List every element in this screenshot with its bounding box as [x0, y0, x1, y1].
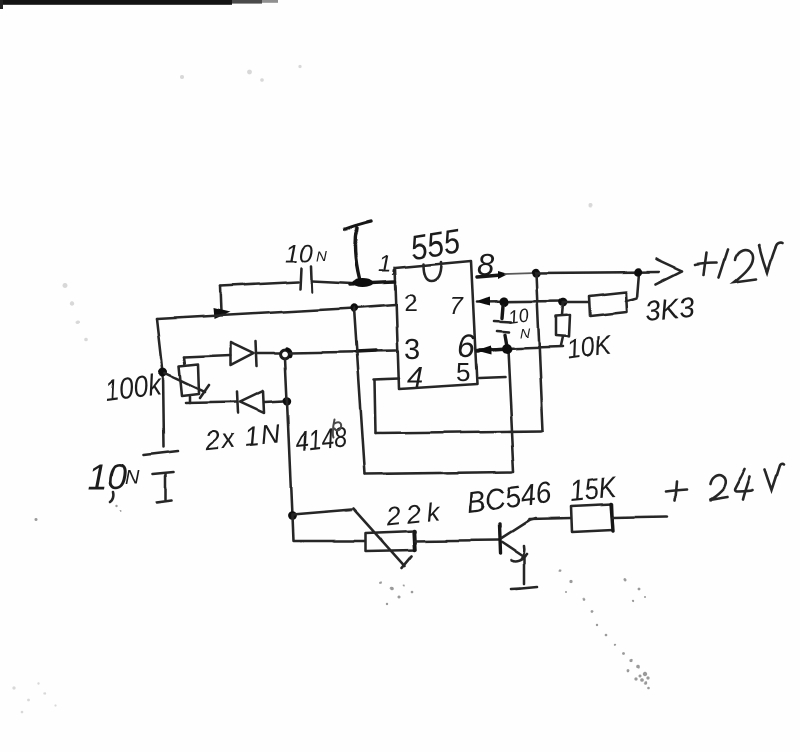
svg-text:10K: 10K	[565, 329, 614, 365]
wire pin1 thick segment	[350, 282, 395, 284]
wire pot top to diode D1 anode	[184, 355, 231, 357]
svg-text:4: 4	[407, 362, 423, 394]
capacitor C1 10n plates	[300, 268, 301, 289]
junction ring node A	[281, 350, 290, 359]
junction dot 3k3/+12V	[634, 268, 642, 276]
wire pin 5 stub	[479, 377, 505, 378]
resistor R5 15k body	[571, 504, 613, 532]
svg-text:3K3: 3K3	[644, 292, 696, 329]
wire bend down to pin2 net	[220, 286, 221, 312]
junction blob at ground/pin1	[352, 279, 374, 288]
ground Q1 emitter	[516, 587, 537, 589]
diode D2 1N4148	[237, 391, 264, 413]
R1 top lead	[184, 357, 185, 365]
svg-text:BC546: BC546	[465, 476, 554, 519]
capacitor C3 10n	[494, 306, 511, 347]
junction dot D2/vertical	[283, 397, 291, 405]
junction dot pin8 / reset loop	[532, 269, 541, 278]
svg-text:N: N	[125, 467, 140, 489]
resistor R2 3k3	[563, 273, 639, 316]
svg-text:2: 2	[404, 290, 417, 317]
wire pin 7	[477, 301, 563, 302]
capacitor C2 10n to ground	[144, 451, 178, 503]
junction dot 10k/3k3	[559, 298, 568, 307]
wire pin 6	[477, 347, 563, 350]
trimmer R4 22k diagonal	[354, 509, 405, 566]
arrowhead into pin 7	[476, 297, 490, 306]
wire D1 cathode to ring	[257, 352, 280, 355]
stray mark p	[332, 419, 340, 437]
transistor Q1 BC546	[499, 518, 536, 584]
junction dot pin2/outer loop	[350, 304, 358, 312]
+12V arrow	[656, 259, 682, 284]
thick dash on pin3 wire	[356, 351, 376, 352]
wire D2 anode to junction	[264, 401, 284, 402]
label +12V	[695, 243, 782, 282]
svg-text:7: 7	[449, 293, 464, 320]
speckles	[35, 505, 651, 690]
stray comma mark	[110, 492, 113, 502]
arrowhead on pin2 wire	[213, 308, 230, 319]
wire pin 8 to +12V	[477, 275, 501, 277]
wire R5 to +24V	[613, 517, 667, 518]
R1 bottom lead	[189, 397, 192, 403]
wire down and to R4	[292, 516, 365, 541]
svg-text:555: 555	[408, 222, 463, 267]
junction dot C3 top	[499, 297, 508, 306]
wire pot bottom to diode D2	[186, 402, 236, 403]
R1 wiper arrow	[165, 373, 205, 392]
svg-text:5: 5	[456, 357, 470, 387]
wire reset loop: +12V down, across, up to pin4	[536, 273, 543, 431]
wire vertical ring to 22k	[285, 358, 292, 516]
junction blob 22k	[288, 512, 297, 521]
junction blob wiper	[159, 368, 168, 377]
svg-text:10: 10	[285, 240, 313, 268]
resistor R4 22k body	[366, 531, 416, 551]
IC U1 notch	[423, 262, 441, 281]
wire pin1 to C1	[312, 281, 352, 283]
wire Q1 collector to R5	[529, 518, 571, 519]
wire ring to pin 3	[290, 351, 396, 353]
junction blob pin6/C3	[502, 344, 512, 354]
wire C1 left to bend	[220, 282, 298, 286]
svg-text:100k: 100k	[103, 368, 165, 408]
svg-text:1,: 1,	[379, 251, 398, 277]
IC U1 555 body	[395, 261, 477, 389]
ground symbol at pin 1	[345, 221, 371, 279]
wire pin 4 stub	[374, 379, 399, 380]
wire R4 to Q1 base	[415, 540, 498, 541]
svg-text:15K: 15K	[568, 471, 620, 508]
svg-text:10: 10	[87, 456, 127, 497]
svg-text:N: N	[520, 325, 531, 341]
resistor R3 10k	[556, 303, 570, 346]
wire outer loop pin2 to pin6	[354, 308, 365, 474]
svg-text:2x 1N: 2x 1N	[202, 419, 282, 457]
potentiometer R1 100k body	[179, 364, 199, 396]
svg-text:N: N	[316, 248, 327, 265]
wire left vertical (pin2 net down)	[157, 319, 164, 447]
label +24V	[666, 464, 784, 500]
diode D1 1N4148	[231, 341, 257, 366]
svg-text:22k: 22k	[384, 496, 443, 532]
wire to trimmer wiper	[292, 510, 352, 515]
wire pin 2	[157, 305, 396, 319]
arrowhead into pin 6	[476, 346, 491, 355]
scan edge mark top	[0, 0, 278, 9]
